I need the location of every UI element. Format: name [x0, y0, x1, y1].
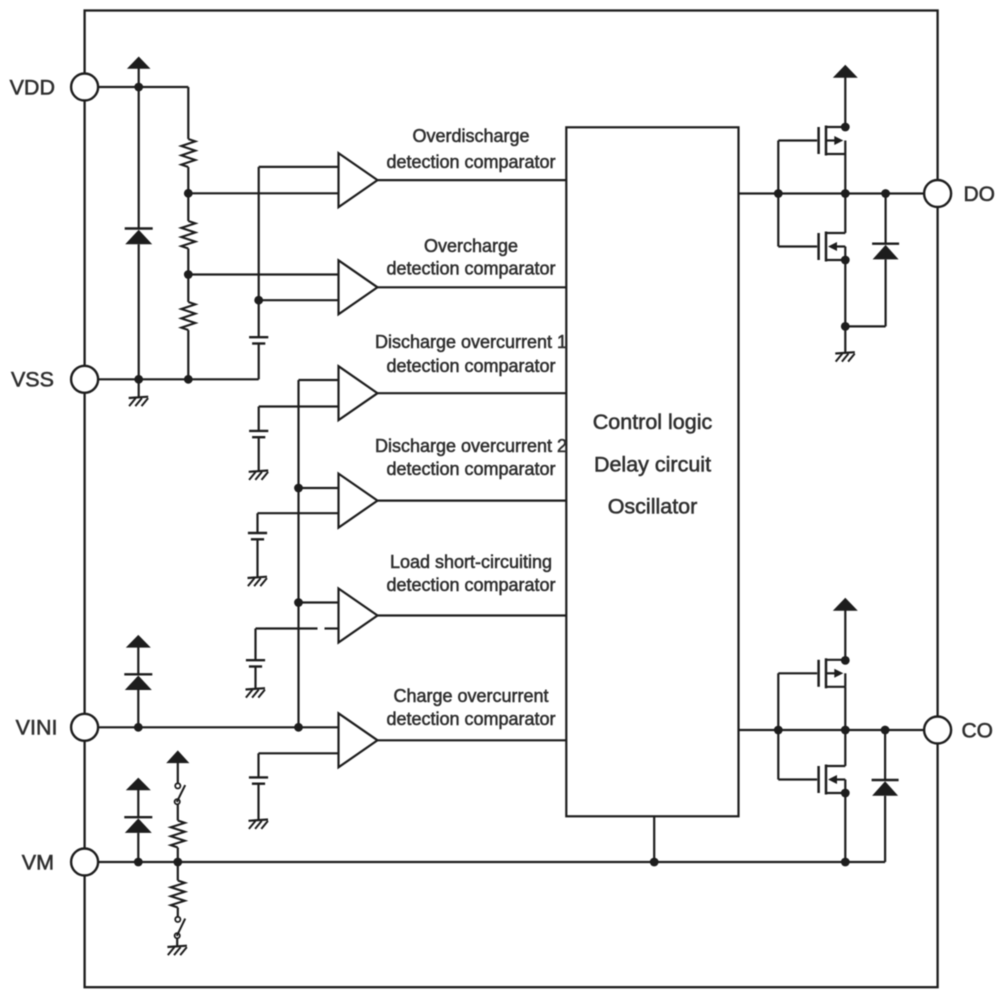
wire comparator3 minus input — [259, 405, 339, 407]
wire comparator3 plus input — [299, 379, 339, 381]
op-amp comparator 2 overcharge — [339, 260, 378, 314]
svg-text:detection comparator: detection comparator — [386, 575, 555, 595]
wire DO diode return — [845, 325, 885, 327]
capacitor C2 — [249, 431, 268, 437]
wire DO gate line — [739, 192, 925, 194]
power arrow test chain — [166, 750, 189, 783]
node DO diode junction — [881, 189, 890, 198]
node VDD junction — [134, 83, 143, 92]
node VM driver junction — [841, 858, 850, 867]
wire DO diode lower — [884, 259, 886, 326]
wire comparator5 plus input — [299, 601, 339, 603]
svg-text:Load short-circuiting: Load short-circuiting — [390, 552, 552, 572]
label Overcharge — [424, 236, 518, 256]
diode D4 DO — [872, 244, 899, 260]
pin CO — [924, 717, 993, 744]
svg-text:Charge overcurrent: Charge overcurrent — [393, 686, 548, 706]
wire comp6 minus to cap C5 — [257, 753, 259, 777]
svg-text:detection comparator: detection comparator — [386, 152, 555, 172]
label Discharge overcurrent 2 — [375, 436, 567, 456]
ground below C4 — [246, 688, 266, 697]
wire cap C2 to ground — [258, 437, 260, 471]
diode D2 VINI clamp — [124, 674, 152, 690]
label detection comparator 6 — [386, 709, 555, 729]
wire DO nmos source down — [844, 260, 846, 326]
label detection comparator 3 — [386, 356, 555, 376]
label detection comparator 5 — [386, 575, 555, 595]
pin VSS — [11, 366, 98, 393]
svg-text:Overdischarge: Overdischarge — [412, 126, 529, 146]
wire VDD diode branch lower — [138, 244, 140, 379]
wire DO gate bus — [777, 141, 779, 247]
node VM resistor junction — [173, 858, 182, 867]
ground below C5 — [249, 820, 269, 829]
node CO drain junction — [841, 726, 850, 735]
transistor Q2 nmos DO — [778, 232, 845, 262]
node DO nmos source — [841, 256, 850, 265]
svg-text:DO: DO — [964, 183, 996, 206]
wire cap C5 to ground — [257, 784, 259, 821]
node VINI bus junction — [294, 723, 303, 732]
node chain-VSS junction — [184, 375, 193, 384]
power arrow DO driver — [833, 65, 858, 127]
wire diode D2 to VINI — [137, 690, 139, 727]
wire tap2 to comparator2 plus — [188, 273, 338, 275]
wire sense to cap C1 — [258, 300, 260, 337]
wire DO diode upper — [884, 194, 886, 244]
label Control logic — [593, 410, 713, 434]
wire R1 to tap1 — [187, 167, 189, 193]
capacitor C5 — [249, 777, 268, 783]
label Load short-circuiting — [390, 552, 552, 572]
power arrow CO driver — [833, 598, 858, 661]
wire CO pmos source to node — [844, 687, 846, 730]
wire tap2 to R3 — [187, 275, 189, 303]
node CO nmos source — [841, 789, 850, 798]
wire CO node to nmos drain — [844, 730, 846, 766]
wire comparator4 plus input — [299, 487, 339, 489]
wire VM line — [98, 861, 885, 863]
svg-text:CO: CO — [962, 720, 994, 743]
wire tap1 to comparator1 minus — [188, 192, 338, 194]
diode D1 VDD-VSS — [125, 229, 153, 245]
power arrow VINI clamp — [126, 635, 151, 674]
wire R2 to tap2 — [187, 249, 189, 275]
node CO gate junction — [774, 726, 783, 735]
capacitor C3 — [248, 533, 267, 539]
power arrow VDD rail — [127, 57, 151, 88]
wire comparator3 output — [378, 392, 567, 394]
wire cap C3 to ground — [256, 539, 258, 577]
wire SW1 to R4 — [177, 804, 179, 820]
wire VINI sense bus — [297, 380, 299, 727]
svg-text:Control logic: Control logic — [593, 410, 713, 434]
wire sense line vertical — [258, 167, 260, 300]
svg-text:VSS: VSS — [11, 368, 54, 392]
pin VM — [22, 849, 98, 876]
wire comparator2 minus input — [259, 299, 339, 301]
node CO pmos drain — [841, 656, 850, 665]
node VM block junction — [650, 858, 659, 867]
ground below VSS — [129, 397, 149, 406]
label Delay circuit — [594, 452, 711, 476]
wire R4 to VM — [177, 848, 179, 863]
wire comparator5 minus input — [256, 627, 339, 629]
wire comparator1 output — [378, 179, 567, 181]
wire R5 to SW2 — [177, 908, 179, 917]
ground below C3 — [248, 577, 268, 586]
resistor R4 — [171, 821, 185, 848]
wire comp3 minus to cap C2 — [258, 407, 260, 431]
pin VDD — [10, 74, 99, 101]
wire comp5 minus to cap C4 — [254, 629, 256, 661]
capacitor C1 — [249, 337, 268, 343]
node bus-comp4 junction — [294, 484, 303, 493]
wire VM to R5 — [177, 862, 179, 881]
wire DO pmos source to node — [844, 154, 846, 194]
wire CO nmos source down — [844, 793, 846, 862]
diode D5 CO — [872, 780, 899, 796]
svg-text:VM: VM — [22, 850, 54, 874]
wire comparator2 output — [378, 286, 567, 288]
ground below C2 — [249, 471, 269, 480]
wire comp4 minus to cap C3 — [256, 513, 258, 533]
wire DO ground stub — [844, 326, 846, 353]
label Discharge overcurrent 1 — [375, 332, 567, 352]
wire comparator6 minus input — [259, 752, 339, 754]
svg-text:detection comparator: detection comparator — [386, 259, 555, 279]
ground below DO driver — [835, 352, 855, 361]
node DO ground junction — [841, 322, 850, 331]
node CO diode junction — [881, 726, 890, 735]
wire comparator1 plus input — [259, 166, 339, 168]
resistor R3 — [181, 302, 195, 330]
node tap1 — [184, 189, 193, 198]
label Charge overcurrent — [393, 686, 548, 706]
wire CO diode upper — [884, 730, 886, 780]
capacitor C4 — [246, 660, 265, 666]
pin DO — [924, 180, 995, 207]
wire chain top — [187, 87, 189, 139]
wire comparator5 output — [378, 614, 567, 616]
wire diode D3 to VM — [137, 833, 139, 862]
wire cap C1 to VSS rail — [258, 344, 260, 380]
label detection comparator 1 — [386, 152, 555, 172]
svg-text:VDD: VDD — [10, 76, 55, 100]
wire VSS stub below — [138, 379, 140, 397]
wire VDD to resistor chain — [98, 86, 188, 88]
node DO drain junction — [841, 189, 850, 198]
resistor R2 — [181, 221, 195, 249]
label Overdischarge — [412, 126, 529, 146]
wire cap C4 to ground — [254, 667, 256, 690]
wire block to VM line — [653, 816, 655, 862]
op-amp comparator 1 overdischarge — [339, 153, 378, 207]
transistor Q1 pmos DO — [778, 126, 845, 156]
op-amp comparator 4 discharge overcurrent 2 — [339, 474, 378, 528]
power arrow VM clamp — [126, 778, 151, 818]
diode D3 VM clamp — [124, 817, 152, 833]
control logic block U1 — [566, 127, 738, 816]
svg-text:Delay circuit: Delay circuit — [594, 452, 711, 476]
node bus-comp5 junction — [294, 598, 303, 607]
wire tap1 to R2 — [187, 193, 189, 221]
wire VINI line — [98, 726, 338, 728]
label detection comparator 2 — [386, 259, 555, 279]
switch SW1 — [175, 783, 186, 804]
wire CO diode lower — [884, 796, 886, 862]
transistor Q4 nmos CO — [778, 765, 845, 795]
node DO pmos drain — [841, 123, 850, 132]
op-amp comparator 6 charge overcurrent — [339, 713, 378, 767]
transistor Q3 pmos CO — [778, 658, 845, 688]
op-amp comparator 5 load short-circuiting — [339, 589, 378, 643]
node VINI diode junction — [134, 723, 143, 732]
wire comparator6 output — [378, 739, 567, 741]
wire DO node to nmos drain — [844, 194, 846, 234]
resistor R5 — [171, 881, 185, 908]
svg-text:VINI: VINI — [16, 716, 58, 740]
pin VINI — [16, 714, 98, 741]
svg-text:Discharge overcurrent 1: Discharge overcurrent 1 — [375, 332, 567, 352]
wire SW2 to ground — [176, 938, 178, 946]
label detection comparator 4 — [386, 459, 555, 479]
svg-text:detection comparator: detection comparator — [386, 459, 555, 479]
wire R3 to VSS rail — [187, 330, 189, 379]
node tap2 — [184, 270, 193, 279]
resistor R1 — [181, 139, 195, 167]
wire comparator4 minus input — [258, 512, 339, 514]
wire comparator4 output — [378, 500, 567, 502]
wire CO gate bus — [777, 673, 779, 779]
ground below SW2 — [167, 946, 187, 955]
switch SW2 — [175, 917, 186, 939]
wire CO gate line — [739, 729, 925, 731]
node DO gate junction — [774, 189, 783, 198]
svg-text:Discharge overcurrent 2: Discharge overcurrent 2 — [375, 436, 567, 456]
svg-text:Oscillator: Oscillator — [608, 495, 698, 519]
node VSS diode junction — [134, 375, 143, 384]
svg-text:Overcharge: Overcharge — [424, 236, 518, 256]
wire VDD diode branch upper — [138, 87, 140, 229]
svg-text:detection comparator: detection comparator — [386, 709, 555, 729]
svg-text:detection comparator: detection comparator — [386, 356, 555, 376]
node VM diode junction — [134, 858, 143, 867]
wire VSS rail — [98, 378, 259, 380]
label Oscillator — [608, 495, 698, 519]
op-amp comparator 3 discharge overcurrent 1 — [339, 366, 378, 420]
node sense junction — [254, 296, 263, 305]
